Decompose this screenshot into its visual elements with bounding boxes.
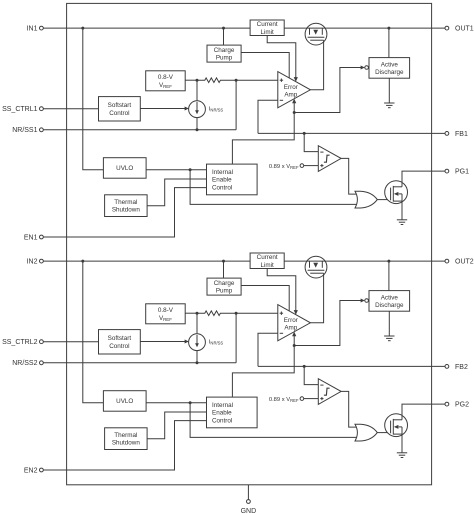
pin FB1 xyxy=(445,131,468,138)
pin SS_CTRL1 xyxy=(2,106,43,113)
svg-text:Control: Control xyxy=(109,110,129,117)
internal enable control block xyxy=(207,397,258,428)
wire FB to error amp - input xyxy=(258,333,278,366)
pin SS_CTRL2 xyxy=(2,339,43,346)
resistor R2 (NR/SS filter) xyxy=(197,311,236,316)
softstart control block xyxy=(99,330,141,354)
wire NR/SS2 riser xyxy=(235,313,237,363)
wire pass FET to OUT2 xyxy=(327,260,445,262)
wire comparator to OR gate xyxy=(341,391,356,427)
current source I2 NR/SS xyxy=(189,313,206,363)
charge pump CP1 xyxy=(207,45,241,62)
ground (active discharge) xyxy=(384,311,394,341)
node A2 junction xyxy=(196,312,199,315)
svg-text:Amp: Amp xyxy=(284,92,297,99)
svg-text:FB2: FB2 xyxy=(455,364,468,371)
thermal shutdown block xyxy=(105,195,148,217)
wire SS_CTRL1 line xyxy=(43,108,98,110)
pin OUT2 xyxy=(445,259,474,266)
wire OR gate to PG FET gate xyxy=(377,432,390,434)
junction OUT1 discharge tap xyxy=(387,27,390,30)
svg-text:IN2: IN2 xyxy=(27,259,38,266)
svg-text:Pump: Pump xyxy=(216,55,233,62)
svg-text:Shutdown: Shutdown xyxy=(112,440,141,447)
wire NR/SS2 line xyxy=(43,362,236,364)
node B1 junction xyxy=(235,79,238,82)
wire enable control to error amp shutdown xyxy=(232,336,294,398)
wire UVLO to enable control xyxy=(146,169,206,171)
pin EN2 xyxy=(24,467,43,474)
wire VREF output xyxy=(185,312,197,314)
wire VREF output xyxy=(185,79,197,81)
pin NR/SS2 xyxy=(12,360,43,367)
svg-text:NR/SS2: NR/SS2 xyxy=(12,360,37,367)
wire PG1 drain xyxy=(402,171,445,187)
UVLO block xyxy=(103,158,146,179)
wire thermal shutdown to enable control xyxy=(147,412,206,439)
junction NR/SS1 line xyxy=(196,128,199,131)
svg-text:Error: Error xyxy=(284,84,298,91)
wire UVLO to OR gate xyxy=(190,170,357,205)
softstart control block xyxy=(99,97,141,121)
wire PG2 drain xyxy=(402,404,445,420)
wire OUT2 to active discharge xyxy=(388,261,390,291)
svg-text:0.89 x VREF: 0.89 x VREF xyxy=(269,397,299,403)
transistor Q1B (PG open-drain NMOS) xyxy=(385,181,408,204)
wire thermal shutdown to enable control xyxy=(147,179,206,206)
svg-text:Softstart: Softstart xyxy=(108,335,132,342)
wire IN2 to current limit xyxy=(43,260,250,262)
svg-text:Current: Current xyxy=(257,254,278,261)
wire FB2 line xyxy=(258,365,445,367)
junction enable/discharge xyxy=(293,111,296,114)
svg-text:Charge: Charge xyxy=(214,47,235,54)
wire FB1 to comparator xyxy=(304,133,318,151)
wire NR/SS1 riser xyxy=(235,80,237,130)
pin NR/SS1 xyxy=(12,127,43,134)
reference VREF1 0.8V xyxy=(146,71,186,91)
wire OUT1 to active discharge xyxy=(388,28,390,57)
thermal shutdown block xyxy=(105,428,148,450)
svg-text:Discharge: Discharge xyxy=(375,69,404,76)
op-amp error amplifier U1A xyxy=(278,72,311,108)
ground (PG FET source) xyxy=(397,434,407,457)
svg-text:NR/SS1: NR/SS1 xyxy=(12,127,37,134)
UVLO block xyxy=(103,391,146,412)
svg-text:0.8-V: 0.8-V xyxy=(158,307,174,314)
svg-text:INR/SS: INR/SS xyxy=(209,340,224,346)
pin OUT1 xyxy=(445,26,474,33)
svg-text:Charge: Charge xyxy=(214,280,235,287)
svg-text:Thermal: Thermal xyxy=(114,432,137,439)
wire error amp + input xyxy=(236,79,278,81)
svg-text:INR/SS: INR/SS xyxy=(209,107,224,113)
wire current limit to error amp xyxy=(267,269,296,311)
wire softstart to current source xyxy=(140,108,187,110)
wire charge pump to error amp xyxy=(241,53,289,79)
svg-text:UVLO: UVLO xyxy=(116,165,133,172)
wire FB1 line xyxy=(258,132,445,134)
wire charge pump feed xyxy=(223,28,225,45)
current limit block xyxy=(250,20,284,36)
wire error amp output to gate xyxy=(310,40,323,90)
wire OR gate to PG FET gate xyxy=(377,199,390,201)
svg-text:Limit: Limit xyxy=(261,29,275,36)
junction UVLO output xyxy=(189,401,192,404)
pin EN1 xyxy=(24,234,43,241)
junction IN1 charge-pump tap xyxy=(222,27,225,30)
node A1 junction xyxy=(196,79,199,82)
device outline box xyxy=(67,3,432,484)
wire enable control to error amp shutdown xyxy=(232,103,294,165)
svg-text:Limit: Limit xyxy=(261,262,275,269)
wire IN2 rail to UVLO xyxy=(83,261,104,403)
wire current limit to pass FET xyxy=(284,260,305,262)
active discharge block xyxy=(369,58,410,79)
ground (active discharge) xyxy=(384,78,394,108)
svg-text:Softstart: Softstart xyxy=(108,102,132,109)
svg-text:UVLO: UVLO xyxy=(116,398,133,405)
svg-text:EN2: EN2 xyxy=(24,467,38,474)
svg-text:SS_CTRL2: SS_CTRL2 xyxy=(2,339,38,346)
comparator U1B (power good) xyxy=(318,146,341,172)
svg-text:EN1: EN1 xyxy=(24,234,38,241)
ground (PG FET source) xyxy=(397,201,407,224)
pin FB2 xyxy=(445,364,468,371)
junction IN2 charge-pump tap xyxy=(222,260,225,263)
pin PG1 xyxy=(445,169,469,176)
wire EN2 to enable control xyxy=(43,421,206,470)
wire UVLO to enable control xyxy=(146,402,206,404)
op-amp error amplifier U2A xyxy=(278,305,311,341)
junction OUT2 discharge tap xyxy=(387,260,390,263)
svg-text:Pump: Pump xyxy=(216,288,233,295)
svg-text:Error: Error xyxy=(284,317,298,324)
pin GND xyxy=(241,485,257,514)
current limit block xyxy=(250,253,284,269)
svg-text:Amp: Amp xyxy=(284,325,297,332)
svg-text:Control: Control xyxy=(212,184,232,191)
svg-text:GND: GND xyxy=(241,508,257,514)
svg-text:Control: Control xyxy=(109,343,129,350)
junction enable/discharge xyxy=(293,344,296,347)
current source I1 NR/SS xyxy=(189,80,206,130)
wire current limit to pass FET xyxy=(284,27,305,29)
wire softstart to current source xyxy=(140,341,187,343)
svg-text:0.89 x VREF: 0.89 x VREF xyxy=(269,164,299,170)
resistor R1 (NR/SS filter) xyxy=(197,78,236,83)
pin IN1 xyxy=(27,26,44,33)
svg-text:Current: Current xyxy=(257,21,278,28)
wire current limit to error amp xyxy=(267,36,296,78)
wire IN1 rail to UVLO xyxy=(83,28,104,170)
wire EN1 to enable control xyxy=(43,188,206,237)
wire FB2 to comparator xyxy=(304,366,318,384)
svg-text:Internal: Internal xyxy=(212,402,233,409)
wire charge pump feed xyxy=(223,261,225,278)
svg-text:Active: Active xyxy=(381,61,399,68)
svg-text:PG1: PG1 xyxy=(455,169,469,176)
svg-text:0.8-V: 0.8-V xyxy=(158,74,174,81)
active discharge block xyxy=(369,291,410,312)
OR gate G1 xyxy=(355,191,377,208)
wire NR/SS1 line xyxy=(43,129,236,131)
charge pump CP2 xyxy=(207,278,241,295)
wire IN1 to current limit xyxy=(43,27,250,29)
node B2 junction xyxy=(235,312,238,315)
wire SS_CTRL2 line xyxy=(43,341,98,343)
svg-text:Thermal: Thermal xyxy=(114,199,137,206)
svg-text:Enable: Enable xyxy=(212,177,232,184)
node 0.89 x VREF threshold xyxy=(269,397,318,403)
transistor Q2B (PG open-drain NMOS) xyxy=(385,414,408,437)
node 0.89 x VREF threshold xyxy=(269,164,318,170)
comparator U2B (power good) xyxy=(318,379,341,405)
svg-text:SS_CTRL1: SS_CTRL1 xyxy=(2,106,38,113)
reference VREF2 0.8V xyxy=(146,304,186,324)
svg-text:Discharge: Discharge xyxy=(375,302,404,309)
wire error amp output to gate xyxy=(310,273,323,323)
pin IN2 xyxy=(27,259,44,266)
svg-text:Active: Active xyxy=(381,294,399,301)
pass transistor Q2A (PMOS) xyxy=(305,256,327,278)
wire enable to active discharge xyxy=(294,68,362,113)
internal enable control block xyxy=(207,164,258,195)
junction IN2 rail xyxy=(81,260,84,263)
junction UVLO output xyxy=(189,168,192,171)
wire enable to active discharge xyxy=(294,301,362,346)
junction FB1 comparator tap xyxy=(303,132,306,135)
OR gate G2 xyxy=(355,424,377,441)
pin PG2 xyxy=(445,402,469,409)
junction IN1 rail xyxy=(81,27,84,30)
junction NR/SS2 line xyxy=(196,361,199,364)
svg-text:OUT2: OUT2 xyxy=(455,259,474,266)
wire UVLO to OR gate xyxy=(190,403,357,438)
wire charge pump to error amp xyxy=(241,286,289,312)
svg-text:FB1: FB1 xyxy=(455,131,468,138)
junction FB2 comparator tap xyxy=(303,365,306,368)
svg-text:Enable: Enable xyxy=(212,410,232,417)
pass transistor Q1A (PMOS) xyxy=(305,23,327,45)
wire FB to error amp - input xyxy=(258,100,278,133)
svg-text:PG2: PG2 xyxy=(455,402,469,409)
svg-text:IN1: IN1 xyxy=(27,26,38,33)
svg-text:Internal: Internal xyxy=(212,169,233,176)
svg-text:OUT1: OUT1 xyxy=(455,26,474,33)
wire pass FET to OUT1 xyxy=(327,27,445,29)
svg-text:Control: Control xyxy=(212,417,232,424)
svg-text:Shutdown: Shutdown xyxy=(112,207,141,214)
wire error amp + input xyxy=(236,312,278,314)
wire comparator to OR gate xyxy=(341,158,356,194)
